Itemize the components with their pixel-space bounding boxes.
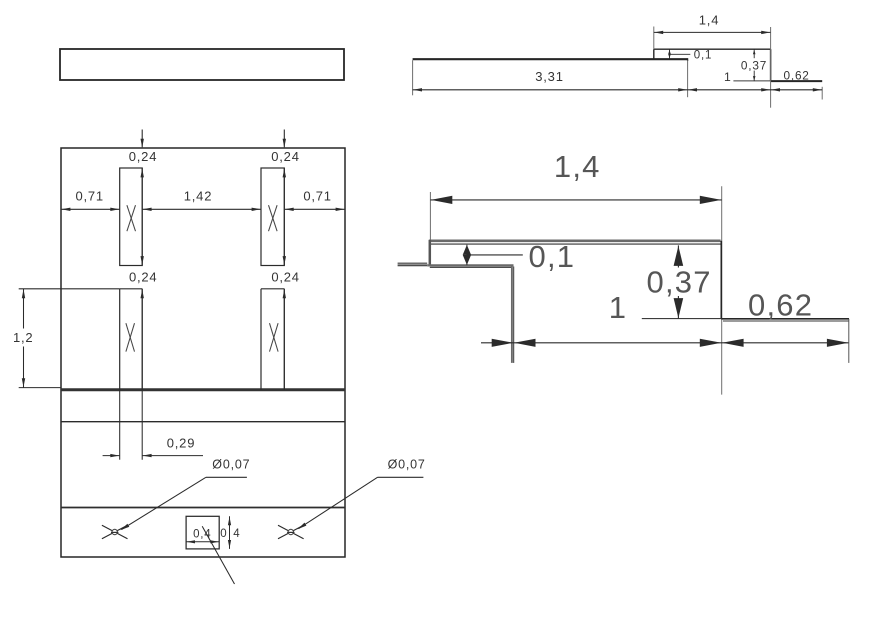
dimension 1,2 vertical line with arrows — [22, 289, 25, 388]
svg-text:1,42: 1,42 — [184, 189, 213, 204]
top view thin bar — [60, 49, 344, 80]
lower slot up-arrow right column — [283, 289, 286, 390]
leader right hole — [298, 477, 424, 529]
detail extension line right x=721.7 — [721, 186, 723, 394]
x mark lower-right slot — [270, 323, 279, 351]
svg-text:0: 0 — [220, 528, 227, 540]
svg-text:0,1: 0,1 — [694, 49, 712, 61]
svg-text:0,62: 0,62 — [784, 69, 810, 83]
x mark upper-right slot — [269, 205, 278, 231]
svg-text:0,24: 0,24 — [129, 269, 158, 284]
svg-text:1,4: 1,4 — [699, 13, 719, 28]
extension line at step x=687.6 — [687, 60, 689, 97]
dimension 1,2 bottom extension line — [19, 387, 61, 389]
extension line far right x=822.2 — [821, 87, 823, 100]
svg-text:0,71: 0,71 — [75, 189, 104, 204]
leader left hole — [120, 477, 247, 530]
detail extension line far right x=847.6 — [848, 319, 850, 363]
svg-text:4: 4 — [233, 528, 240, 540]
svg-text:0,24: 0,24 — [129, 149, 158, 164]
front view lower divider line — [61, 507, 345, 509]
extension line above plate left x=653.8 — [653, 27, 655, 50]
lower slot right — [261, 289, 284, 390]
dimension 0,71 right — [284, 208, 345, 211]
upper slot right — [261, 168, 284, 266]
svg-text:Ø0,07: Ø0,07 — [388, 457, 426, 471]
side view plate left connector — [653, 49, 655, 59]
detail right vertical edge — [720, 241, 722, 319]
detail left stub of long bar (double line) — [398, 264, 428, 266]
square width dimension arrows — [186, 540, 219, 543]
down arrow above top edge left column — [141, 130, 144, 148]
detail plate top surface (double line) — [429, 241, 720, 244]
svg-text:0,29: 0,29 — [167, 435, 196, 450]
svg-text:0,37: 0,37 — [741, 58, 767, 72]
leader from square — [202, 526, 234, 584]
detail extension line left x=430.4 — [429, 192, 431, 241]
extension line left for 3,31 — [412, 60, 414, 95]
detail 1-underline — [642, 318, 722, 320]
dimension 0,1 small double arrow — [668, 49, 690, 59]
detail step vertical edge (double line) — [512, 265, 514, 363]
slot height dimension line right column — [283, 168, 286, 266]
detail plate left edge — [429, 240, 432, 266]
extension of lower-left slot left edge — [119, 390, 121, 460]
svg-text:1: 1 — [724, 70, 732, 84]
svg-text:0,24: 0,24 — [271, 149, 300, 164]
dimension 0,29 left arrow segment — [103, 454, 120, 457]
x mark lower-left slot — [126, 323, 135, 351]
svg-text:0,24: 0,24 — [271, 269, 300, 284]
chained dimension line bottom of side view — [413, 88, 823, 91]
lower slot up-arrow line left column extending to 0,29 extension — [141, 289, 144, 460]
detail chained dimension bottom — [481, 339, 849, 347]
dimension 1,4 small — [654, 31, 771, 34]
svg-text:1: 1 — [609, 290, 627, 325]
x mark upper-left slot — [127, 205, 136, 231]
dimension 0,29 right arrow segment — [142, 454, 203, 457]
svg-text:Ø0,07: Ø0,07 — [212, 457, 250, 471]
side view bar top line — [413, 58, 688, 60]
svg-text:3,31: 3,31 — [535, 69, 564, 84]
slot height dimension line left column — [141, 168, 144, 266]
front view outer rectangle — [61, 148, 345, 557]
front view band bottom line — [61, 421, 345, 423]
hole marker left (cross with circle) — [102, 525, 128, 539]
dimension 1,2 top extension line — [19, 288, 120, 290]
detail dimension 0,37 vertical — [674, 245, 684, 318]
side view flange line 0,62 — [771, 80, 823, 82]
side view right step edge — [770, 49, 772, 81]
dimension 0,71 left — [61, 208, 120, 211]
side view 1-underline — [733, 80, 770, 82]
detail dimension 1,4 — [430, 196, 721, 204]
hole marker right (cross with circle) — [278, 525, 304, 539]
side view raised plate top line — [654, 48, 771, 50]
lower slot left — [120, 289, 143, 390]
svg-text:1,4: 1,4 — [554, 149, 601, 184]
upper slot left — [120, 168, 143, 266]
down arrow above top edge right column — [283, 130, 286, 148]
dimension 0,37 small vertical — [753, 49, 756, 81]
side view small step edge at bar end — [687, 58, 689, 61]
front view heavy band line — [61, 388, 345, 391]
small square cutout — [186, 516, 219, 549]
svg-text:0,1: 0,1 — [529, 239, 576, 274]
detail middle step surface (double line) — [427, 265, 513, 267]
dimension 1,42 — [142, 208, 261, 211]
svg-text:0,62: 0,62 — [748, 287, 813, 322]
svg-text:0,37: 0,37 — [647, 264, 712, 299]
extension line right x=770.6 — [770, 27, 772, 108]
svg-text:1,2: 1,2 — [13, 330, 33, 345]
svg-text:0,71: 0,71 — [303, 189, 332, 204]
square height dimension 0|4 — [220, 516, 240, 549]
detail flange line 0,62 (double) — [721, 319, 849, 321]
detail dimension 0,1 — [463, 245, 523, 265]
